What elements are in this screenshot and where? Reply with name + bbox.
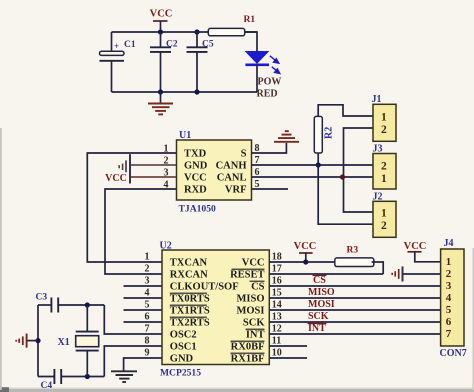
svg-text:VCC: VCC: [150, 9, 173, 20]
node VCC rail junction: [158, 29, 163, 34]
svg-text:TX1RTS: TX1RTS: [170, 306, 210, 317]
svg-text:TX2RTS: TX2RTS: [170, 318, 210, 329]
svg-text:6: 6: [446, 316, 452, 328]
wire U2 pin17: [269, 273, 383, 275]
svg-text:1: 1: [381, 112, 387, 124]
wire J1 pin2 down to J2 pin1: [344, 128, 374, 212]
wire U2 pin18 VCC to R3: [269, 261, 336, 263]
scan edge artifact right: [472, 248, 474, 390]
svg-text:RXCAN: RXCAN: [170, 270, 208, 281]
node ground tap: [35, 338, 40, 343]
svg-text:J4: J4: [444, 238, 454, 249]
svg-text:SCK: SCK: [243, 318, 265, 329]
svg-text:VCC: VCC: [404, 241, 427, 252]
svg-text:VRF: VRF: [225, 185, 247, 196]
svg-text:18: 18: [272, 252, 282, 263]
node VCC pin18 junction: [303, 259, 308, 264]
svg-text:R2: R2: [324, 127, 335, 139]
svg-text:J3: J3: [373, 144, 383, 155]
ground flipped at U1 pin8: [274, 141, 299, 143]
wire top rail: [112, 31, 209, 33]
svg-text:MOSI: MOSI: [236, 306, 264, 317]
svg-text:TX0RTS: TX0RTS: [170, 294, 210, 305]
node X1 top junction: [85, 302, 90, 307]
wire R2 bottom to CANH: [317, 153, 319, 165]
svg-text:12: 12: [272, 324, 282, 335]
svg-text:3: 3: [164, 168, 169, 179]
LED D1 POW RED: [246, 52, 268, 64]
connector J3: [373, 154, 396, 190]
svg-text:3: 3: [446, 280, 452, 292]
wire J4 pin1 to VCC: [415, 252, 441, 262]
wire U1 pin2 GND: [130, 164, 177, 166]
connector J1: [373, 104, 396, 141]
wire CANH down to J2 pin2: [318, 165, 373, 224]
svg-text:2: 2: [381, 220, 387, 232]
svg-text:9: 9: [145, 348, 150, 359]
svg-text:C2: C2: [166, 40, 178, 50]
svg-text:6: 6: [145, 312, 150, 323]
wire R1 to LED: [245, 32, 257, 51]
svg-text:INT: INT: [308, 323, 326, 334]
microcontroller U2 body MCP2515: [162, 250, 269, 365]
svg-text:X1: X1: [58, 337, 70, 348]
node CANH junction R2: [316, 162, 321, 167]
wire U2 pin11 RX0BF stub: [269, 345, 307, 347]
svg-text:S: S: [241, 149, 247, 160]
svg-text:SCK: SCK: [308, 311, 329, 322]
node C2 bottom junction: [158, 89, 163, 94]
power symbol VCC bar at U1: [129, 154, 131, 183]
wire U2 pin4 TX0RTS stub: [124, 297, 163, 299]
resistor R1: [208, 28, 244, 35]
svg-text:1: 1: [381, 208, 387, 220]
svg-text:16: 16: [272, 276, 282, 287]
wire crystal left vertical: [37, 305, 39, 377]
svg-text:C4: C4: [41, 381, 53, 391]
wire INT U2 pin12 to J4 pin7: [269, 333, 440, 335]
U2 overlines for active-low pins: [232, 268, 265, 270]
svg-text:INT: INT: [246, 330, 265, 341]
svg-text:2: 2: [145, 264, 150, 275]
scan edge artifact left: [0, 128, 2, 390]
svg-text:3: 3: [145, 276, 150, 287]
op-amp U1 body TJA1050: [177, 140, 252, 200]
wire U2 pin9 GND to ground: [124, 358, 162, 371]
wire U2 pin6 TX2RTS stub: [124, 321, 163, 323]
svg-text:1: 1: [446, 256, 452, 268]
svg-text:TJA1050: TJA1050: [179, 204, 217, 215]
wire OSC2 U2 pin7: [104, 305, 162, 334]
svg-text:TXCAN: TXCAN: [170, 258, 208, 269]
capacitor C5: [196, 32, 198, 47]
svg-text:11: 11: [272, 336, 281, 347]
wire CANH U1 pin7 to J3 pin2: [252, 164, 374, 166]
svg-text:POW: POW: [258, 76, 282, 87]
wire U2 pin3 CLKOUT stub: [124, 285, 163, 287]
resistor R3: [335, 258, 374, 267]
node CANL junction: [340, 174, 345, 179]
svg-text:CLKOUT/SOF: CLKOUT/SOF: [170, 282, 239, 293]
svg-text:CON7: CON7: [440, 348, 467, 359]
svg-text:1: 1: [381, 173, 387, 185]
wire U1 pin8 S to ground: [252, 143, 287, 153]
svg-text:RX1BF: RX1BF: [231, 354, 265, 365]
svg-text:C5: C5: [202, 40, 214, 50]
svg-text:J2: J2: [373, 192, 383, 203]
svg-text:U1: U1: [179, 130, 191, 141]
wire U1 pin3 VCC: [130, 176, 177, 178]
svg-text:MISO: MISO: [236, 294, 264, 305]
connector J4 CON7: [441, 249, 464, 346]
wire CANL U1 pin6 to J3 pin1: [252, 176, 374, 178]
wire R2 top to J1 pin1: [318, 105, 373, 117]
wire CS U2 pin16 to J4 pin3: [269, 285, 440, 287]
wire MISO U2 pin15 to J4 pin4: [269, 297, 440, 299]
svg-text:VCC: VCC: [294, 241, 317, 252]
svg-text:5: 5: [446, 304, 452, 316]
svg-text:+: +: [114, 41, 119, 51]
svg-text:10: 10: [272, 348, 282, 359]
svg-text:7: 7: [446, 328, 452, 340]
svg-text:VCC: VCC: [105, 173, 127, 184]
svg-text:MCP2515: MCP2515: [160, 368, 201, 379]
svg-text:2: 2: [381, 161, 387, 173]
capacitor C2: [160, 32, 162, 47]
wire OSC1 U2 pin8: [104, 346, 162, 377]
wire U2 pin5 TX1RTS stub: [124, 309, 163, 311]
svg-text:RX0BF: RX0BF: [231, 342, 265, 353]
svg-text:J1: J1: [372, 94, 382, 105]
wire U1 pin5 VRF stub: [252, 188, 289, 190]
svg-text:VCC: VCC: [184, 173, 207, 184]
svg-text:RED: RED: [257, 88, 278, 99]
svg-text:17: 17: [272, 264, 282, 275]
svg-text:1: 1: [145, 252, 150, 263]
wire U1 pin4 RXD to U2 RXCAN: [105, 189, 177, 274]
svg-text:2: 2: [446, 268, 452, 280]
svg-text:14: 14: [272, 300, 282, 311]
wire SCK U2 pin13 to J4 pin6: [269, 321, 440, 323]
svg-text:8: 8: [145, 336, 150, 347]
ground power rail: [160, 92, 162, 103]
svg-text:GND: GND: [184, 161, 208, 172]
svg-text:OSC2: OSC2: [170, 330, 197, 341]
wire U2 pin10 RX1BF stub: [269, 357, 307, 359]
scan edge artifact bottom: [0, 389, 474, 392]
svg-text:2: 2: [381, 124, 387, 136]
svg-text:CANH: CANH: [216, 161, 247, 172]
ground at U2 pin9: [111, 370, 137, 372]
ground sideways at U1 pin2: [125, 160, 127, 172]
svg-text:C3: C3: [36, 293, 48, 303]
resistor R2: [314, 116, 322, 153]
wire U1 pin1 TXD to U2 TXCAN: [87, 153, 176, 262]
connector J2: [373, 201, 396, 237]
svg-text:MISO: MISO: [308, 287, 335, 298]
svg-text:MOSI: MOSI: [308, 299, 335, 310]
svg-text:CS: CS: [251, 282, 265, 293]
svg-text:OSC1: OSC1: [170, 342, 197, 353]
svg-text:U2: U2: [160, 241, 172, 252]
wire R3 to U2 pin17 RESET: [372, 262, 384, 274]
svg-text:GND: GND: [170, 354, 194, 365]
svg-text:4: 4: [145, 288, 150, 299]
svg-text:C1: C1: [124, 40, 136, 50]
svg-text:VCC: VCC: [242, 258, 265, 269]
capacitor C1 (polarized): [111, 32, 113, 51]
node C5 rail junction: [194, 29, 199, 34]
svg-text:CS: CS: [313, 275, 326, 286]
svg-text:RESET: RESET: [230, 270, 264, 281]
svg-text:4: 4: [446, 292, 452, 304]
svg-text:2: 2: [164, 156, 169, 167]
node C5 bottom junction: [194, 89, 199, 94]
ground sideways at crystal: [27, 340, 38, 342]
svg-text:R1: R1: [244, 15, 256, 25]
svg-text:5: 5: [145, 300, 150, 311]
svg-text:RXD: RXD: [184, 185, 207, 196]
wire MOSI U2 pin14 to J4 pin5: [269, 309, 440, 311]
svg-text:1: 1: [164, 144, 169, 155]
wire J4 pin2 to ground: [403, 273, 441, 275]
svg-text:13: 13: [272, 312, 282, 323]
svg-text:15: 15: [272, 288, 282, 299]
svg-text:7: 7: [145, 324, 150, 335]
svg-text:CANL: CANL: [217, 173, 247, 184]
svg-text:4: 4: [164, 180, 169, 191]
ground sideways at J4 pin2: [402, 266, 404, 281]
svg-text:TXD: TXD: [184, 149, 207, 160]
svg-text:R3: R3: [347, 246, 359, 256]
node X1 bottom junction: [85, 374, 90, 379]
wire bottom rail: [112, 91, 258, 93]
